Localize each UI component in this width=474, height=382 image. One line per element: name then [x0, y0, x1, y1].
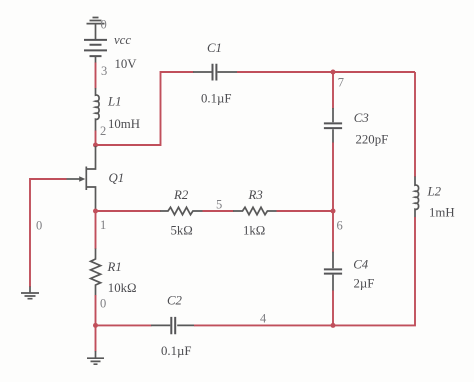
wire junction to C2: [96, 324, 152, 326]
svg-text:0.1µF: 0.1µF: [161, 344, 192, 358]
svg-text:C3: C3: [354, 111, 369, 125]
svg-text:1: 1: [100, 218, 106, 232]
wire C4 to node 4: [332, 291, 334, 326]
svg-text:C2: C2: [167, 294, 183, 308]
svg-text:4: 4: [260, 312, 267, 326]
svg-text:R3: R3: [248, 188, 263, 202]
ground (top, at VCC positive): [87, 18, 105, 40]
svg-text:5: 5: [216, 197, 222, 211]
junction node 4: [331, 323, 336, 328]
wire gate input: [30, 179, 67, 287]
battery V1 vcc: [84, 40, 107, 63]
junction node 7: [331, 70, 336, 75]
ground (bottom-middle): [87, 351, 104, 364]
svg-text:3: 3: [101, 64, 107, 78]
wire L1 to node 2 junction: [95, 131, 97, 146]
svg-text:5kΩ: 5kΩ: [171, 224, 193, 238]
svg-text:C1: C1: [207, 41, 222, 55]
svg-text:vcc: vcc: [114, 33, 131, 47]
svg-text:0: 0: [101, 18, 107, 32]
junction node 2: [93, 143, 98, 148]
ground (input, bottom-left): [21, 287, 39, 299]
wire C3 to node 6: [332, 143, 334, 212]
svg-text:Q1: Q1: [109, 171, 125, 185]
junction node 1: [93, 209, 98, 214]
inductor L1: [96, 88, 100, 131]
capacitor C3: [324, 108, 342, 143]
wire junction to ground: [95, 325, 97, 351]
junction (C2/R1/ground): [93, 323, 98, 328]
wire right vertical lower (L2 to bottom): [333, 217, 415, 325]
svg-text:1kΩ: 1kΩ: [243, 224, 265, 238]
svg-text:0: 0: [100, 297, 106, 311]
wire node 5 (R2 to R3): [203, 210, 234, 212]
wire right vertical upper (to L2): [414, 72, 416, 177]
svg-text:2: 2: [100, 124, 106, 138]
transistor Q1 JFET: [66, 146, 96, 209]
wire node 2 to C1 (up and right): [96, 72, 194, 145]
resistor R1: [91, 249, 101, 296]
capacitor C4: [324, 252, 342, 291]
svg-text:7: 7: [338, 76, 344, 90]
svg-text:6: 6: [337, 219, 343, 233]
svg-text:10kΩ: 10kΩ: [108, 281, 137, 295]
wire R1 to bottom junction: [95, 295, 97, 325]
wire node 1 to R1: [95, 211, 97, 249]
svg-text:0: 0: [36, 219, 42, 233]
wire vcc to L1: [95, 63, 97, 89]
wire node 7 to C3: [332, 72, 334, 109]
capacitor C1: [193, 64, 237, 81]
resistor R2: [160, 207, 203, 214]
svg-text:220pF: 220pF: [356, 133, 389, 147]
svg-text:C4: C4: [353, 257, 369, 271]
svg-text:10V: 10V: [115, 57, 138, 71]
svg-text:L1: L1: [107, 95, 122, 109]
inductor L2: [415, 177, 419, 218]
svg-text:2µF: 2µF: [354, 277, 375, 291]
wire node 6 to C4: [332, 211, 334, 252]
wire node 1 to R2: [96, 210, 161, 212]
svg-text:L2: L2: [427, 185, 442, 199]
svg-text:0.1µF: 0.1µF: [201, 92, 232, 106]
svg-text:R2: R2: [173, 188, 189, 202]
svg-text:R1: R1: [107, 260, 122, 274]
wire C1 to top-right corner: [237, 71, 415, 73]
wire C2 to node 4: [194, 324, 333, 326]
svg-text:1mH: 1mH: [429, 206, 455, 220]
resistor R3: [233, 207, 277, 214]
capacitor C2: [151, 317, 195, 334]
wire R3 to node 6: [277, 210, 334, 212]
svg-text:10mH: 10mH: [108, 117, 140, 131]
junction node 6: [331, 209, 336, 214]
